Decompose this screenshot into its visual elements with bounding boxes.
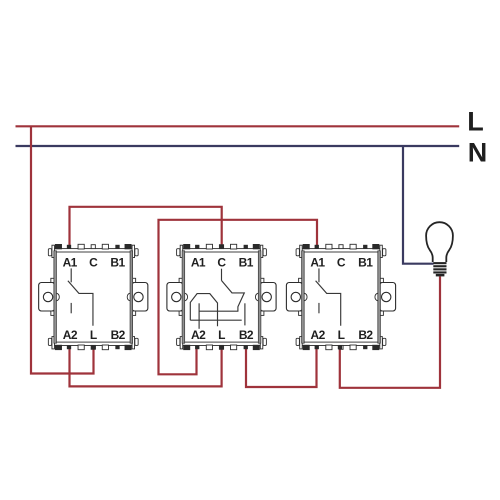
lamp E1 base thread 3 [433,268,446,270]
wire SW2.B2 to SW3.A2 [246,345,317,387]
switch SW1 mechanism [68,268,93,325]
lamp E1 base tip [436,274,445,277]
wire N bus [16,145,460,147]
pin A2 lead [198,303,200,329]
pin C lead [221,269,223,281]
wire bridge SW1.A1 to SW2.C [70,207,222,250]
wire N drop to lamp [403,146,434,264]
switch SW2 mechanism [190,269,245,329]
wire bridge SW3.A1 to SW2.A2 [159,220,318,374]
lamp E1 base thread 4 [433,271,446,273]
wire L drop to feed [31,126,94,373]
terminal nub SW3.L [338,345,342,349]
svg-text:L: L [467,107,484,137]
switch SW3 mechanism [316,268,341,325]
switch SW1 body [39,244,148,350]
lamp E1 base thread 1 [433,262,446,264]
terminal nub SW1.L [92,345,96,349]
crossover plate [190,294,217,327]
terminal nub SW2.C [220,245,224,249]
wire L bus [16,125,460,127]
crossbar lower [190,319,241,321]
crossbar mid [199,310,238,312]
lever C arm [222,281,245,312]
wire SW1.A2 to SW2.L [70,345,222,386]
lamp E1 base thread 2 [433,265,446,267]
switch SW2 body [167,244,276,350]
pin B2 lead [244,303,246,325]
svg-text:N: N [468,138,488,168]
terminal nub SW2.L [220,345,224,349]
wire lamp to SW3.L [340,276,440,387]
lamp E1 glass [426,222,453,262]
switch SW3 body [286,244,395,350]
